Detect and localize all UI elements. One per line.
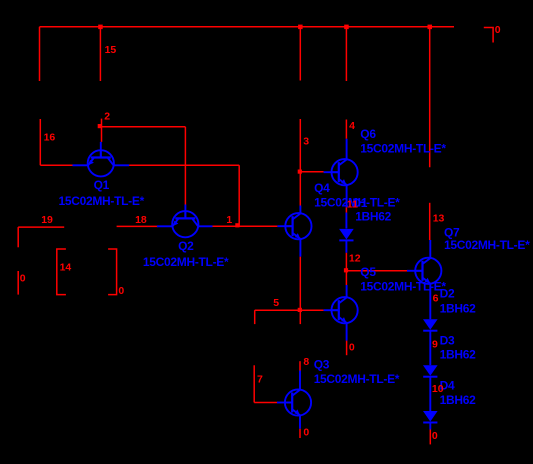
wire net 2 stub	[101, 119, 103, 142]
wire net 7 horizontal to Q3 base	[254, 402, 277, 404]
svg-text:5: 5	[273, 297, 279, 309]
svg-text:Q2: Q2	[178, 239, 194, 253]
wire net 0 stub left	[17, 271, 19, 295]
svg-text:1BH62: 1BH62	[440, 348, 476, 362]
transistor Q5	[332, 297, 358, 323]
wire Q1 collector to corner	[129, 164, 239, 166]
pin bracket 0 top right	[484, 28, 493, 43]
junction node 2	[98, 124, 102, 128]
transistor Q2	[172, 211, 198, 237]
wire net 1 horizontal to Q4 base	[212, 225, 277, 227]
svg-text:13: 13	[433, 213, 445, 225]
wire rail drop left	[39, 27, 41, 81]
wire Q2 emitter lead	[157, 225, 173, 227]
wire net 5 horizontal	[255, 309, 324, 311]
wire net 7 vertical	[253, 365, 255, 402]
wire net 0 stub below Q3	[299, 429, 301, 438]
svg-text:D2: D2	[440, 287, 455, 301]
wire rail drop mid-right	[345, 27, 347, 81]
wire Q3 base lead	[277, 402, 292, 404]
wire net 12 vertical	[345, 253, 347, 285]
diode D3	[423, 365, 438, 377]
wire Q4 collector lead	[299, 206, 301, 214]
svg-text:Q1: Q1	[94, 178, 110, 192]
svg-text:0: 0	[495, 24, 501, 36]
svg-text:Q6: Q6	[360, 127, 376, 141]
wire rail drop mid-left	[299, 27, 301, 81]
wire net 0 stub below Q5	[346, 341, 348, 356]
transistor Q7	[415, 258, 441, 284]
svg-text:15C02MH-TL-E*: 15C02MH-TL-E*	[360, 280, 446, 294]
svg-text:12: 12	[349, 253, 361, 265]
wire Q6 emitter lead	[346, 185, 348, 207]
svg-text:0: 0	[118, 285, 124, 297]
wire Q4 base lead	[277, 225, 292, 227]
wire net 4 stub	[345, 120, 347, 139]
svg-text:2: 2	[104, 111, 110, 123]
svg-text:1BH62: 1BH62	[440, 393, 476, 407]
pin bracket 14	[57, 249, 66, 295]
junction node 1	[235, 223, 239, 227]
svg-text:0: 0	[20, 272, 26, 284]
wire net 3 vertical	[299, 119, 301, 206]
svg-text:1: 1	[226, 214, 232, 226]
svg-text:10: 10	[432, 383, 444, 395]
wire Q5 base lead	[324, 309, 339, 311]
wire corner down to net 1	[238, 165, 240, 226]
svg-text:15: 15	[105, 44, 117, 56]
wire Q7 base lead	[407, 270, 423, 272]
wire D1 anode lead	[345, 213, 347, 229]
wire D2-D3 lead	[429, 331, 431, 365]
svg-text:0: 0	[349, 341, 355, 353]
svg-text:1BH62: 1BH62	[355, 210, 391, 224]
svg-text:15C02MH-TL-E*: 15C02MH-TL-E*	[360, 142, 446, 156]
junction rail mid-right	[344, 25, 349, 30]
wire Q6 base lead	[324, 171, 339, 173]
svg-text:9: 9	[432, 339, 438, 351]
svg-text:Q4: Q4	[314, 181, 330, 195]
wire net 16 vertical	[39, 119, 41, 165]
diode D4	[423, 411, 438, 423]
svg-text:0: 0	[303, 427, 309, 439]
svg-text:18: 18	[135, 214, 147, 226]
transistor Q4	[285, 213, 311, 239]
svg-text:19: 19	[41, 214, 53, 226]
svg-text:6: 6	[433, 293, 439, 305]
svg-text:7: 7	[257, 373, 263, 385]
wire net 8 stub	[299, 361, 301, 370]
svg-text:0: 0	[432, 430, 438, 442]
wire net 19 horizontal	[18, 226, 64, 228]
svg-text:15C02MH-TL-E*: 15C02MH-TL-E*	[314, 372, 400, 386]
svg-text:8: 8	[303, 356, 309, 368]
junction node 12	[344, 268, 348, 272]
wire Q4 emitter lead	[299, 239, 301, 257]
transistor Q3	[285, 389, 311, 415]
wire Q3 collector lead	[299, 371, 301, 390]
wire Q7 emitter lead to D2	[429, 284, 431, 320]
wire net 16 horizontal to Q1	[40, 164, 72, 166]
svg-text:15C02MH-TL-E*: 15C02MH-TL-E*	[143, 255, 229, 269]
wire Q2 collector lead	[198, 225, 213, 227]
wire net 5 vertical from Q4 emitter	[299, 257, 301, 325]
wire top power rail	[40, 26, 455, 28]
wire net 11 segment	[345, 207, 347, 212]
svg-text:D3: D3	[440, 333, 455, 347]
junction rail mid-left	[298, 25, 303, 30]
wire net 19 vertical	[17, 227, 19, 247]
transistor Q6	[332, 159, 358, 185]
wire Q7 collector lead	[429, 240, 431, 258]
svg-text:1BH62: 1BH62	[440, 301, 476, 315]
svg-text:11: 11	[347, 198, 358, 210]
wire net 2 vertical to Q2 base	[184, 127, 186, 205]
wire net 18	[117, 225, 158, 227]
junction node 5	[298, 308, 302, 312]
diode D1	[339, 229, 354, 241]
wire D1 cathode lead	[345, 241, 347, 253]
transistor Q1	[88, 150, 114, 176]
wire Q5 collector lead	[346, 285, 348, 297]
wire rail drop net 15	[99, 27, 101, 81]
wire rail drop right	[429, 27, 431, 168]
wire Q3 emitter lead	[299, 415, 301, 428]
svg-text:15C02MH-TL-E*: 15C02MH-TL-E*	[444, 238, 530, 252]
svg-text:3: 3	[303, 135, 309, 147]
diode D2	[423, 319, 438, 331]
svg-text:4: 4	[349, 120, 355, 132]
wire net 13 segment	[429, 203, 431, 240]
wire Q6 collector lead	[346, 139, 348, 160]
wire Q1 collector lead	[113, 164, 129, 166]
wire D3-D4 lead	[429, 377, 431, 411]
junction node 3	[298, 170, 302, 174]
wire Q1 emitter lead	[73, 164, 89, 166]
wire net 3 to Q6 base	[300, 171, 323, 173]
wire net 2 horizontal	[100, 126, 185, 128]
svg-text:15C02MH-TL-E*: 15C02MH-TL-E*	[59, 194, 145, 208]
svg-text:Q5: Q5	[360, 265, 376, 279]
svg-text:Q3: Q3	[314, 357, 330, 371]
wire Q2 base lead	[184, 205, 186, 219]
junction rail right	[428, 25, 433, 30]
pin bracket 0	[108, 249, 117, 295]
wire net 0 stub below D4	[429, 430, 431, 445]
wire Q5 emitter lead	[346, 323, 348, 341]
junction rail net15	[98, 25, 103, 30]
svg-text:14: 14	[60, 262, 72, 274]
svg-text:16: 16	[44, 132, 56, 144]
wire Q1 base lead	[100, 142, 102, 158]
wire D4 cathode lead	[429, 423, 431, 430]
wire net 12 to Q7 base	[346, 270, 407, 272]
wire net 5 left leg	[254, 310, 256, 324]
